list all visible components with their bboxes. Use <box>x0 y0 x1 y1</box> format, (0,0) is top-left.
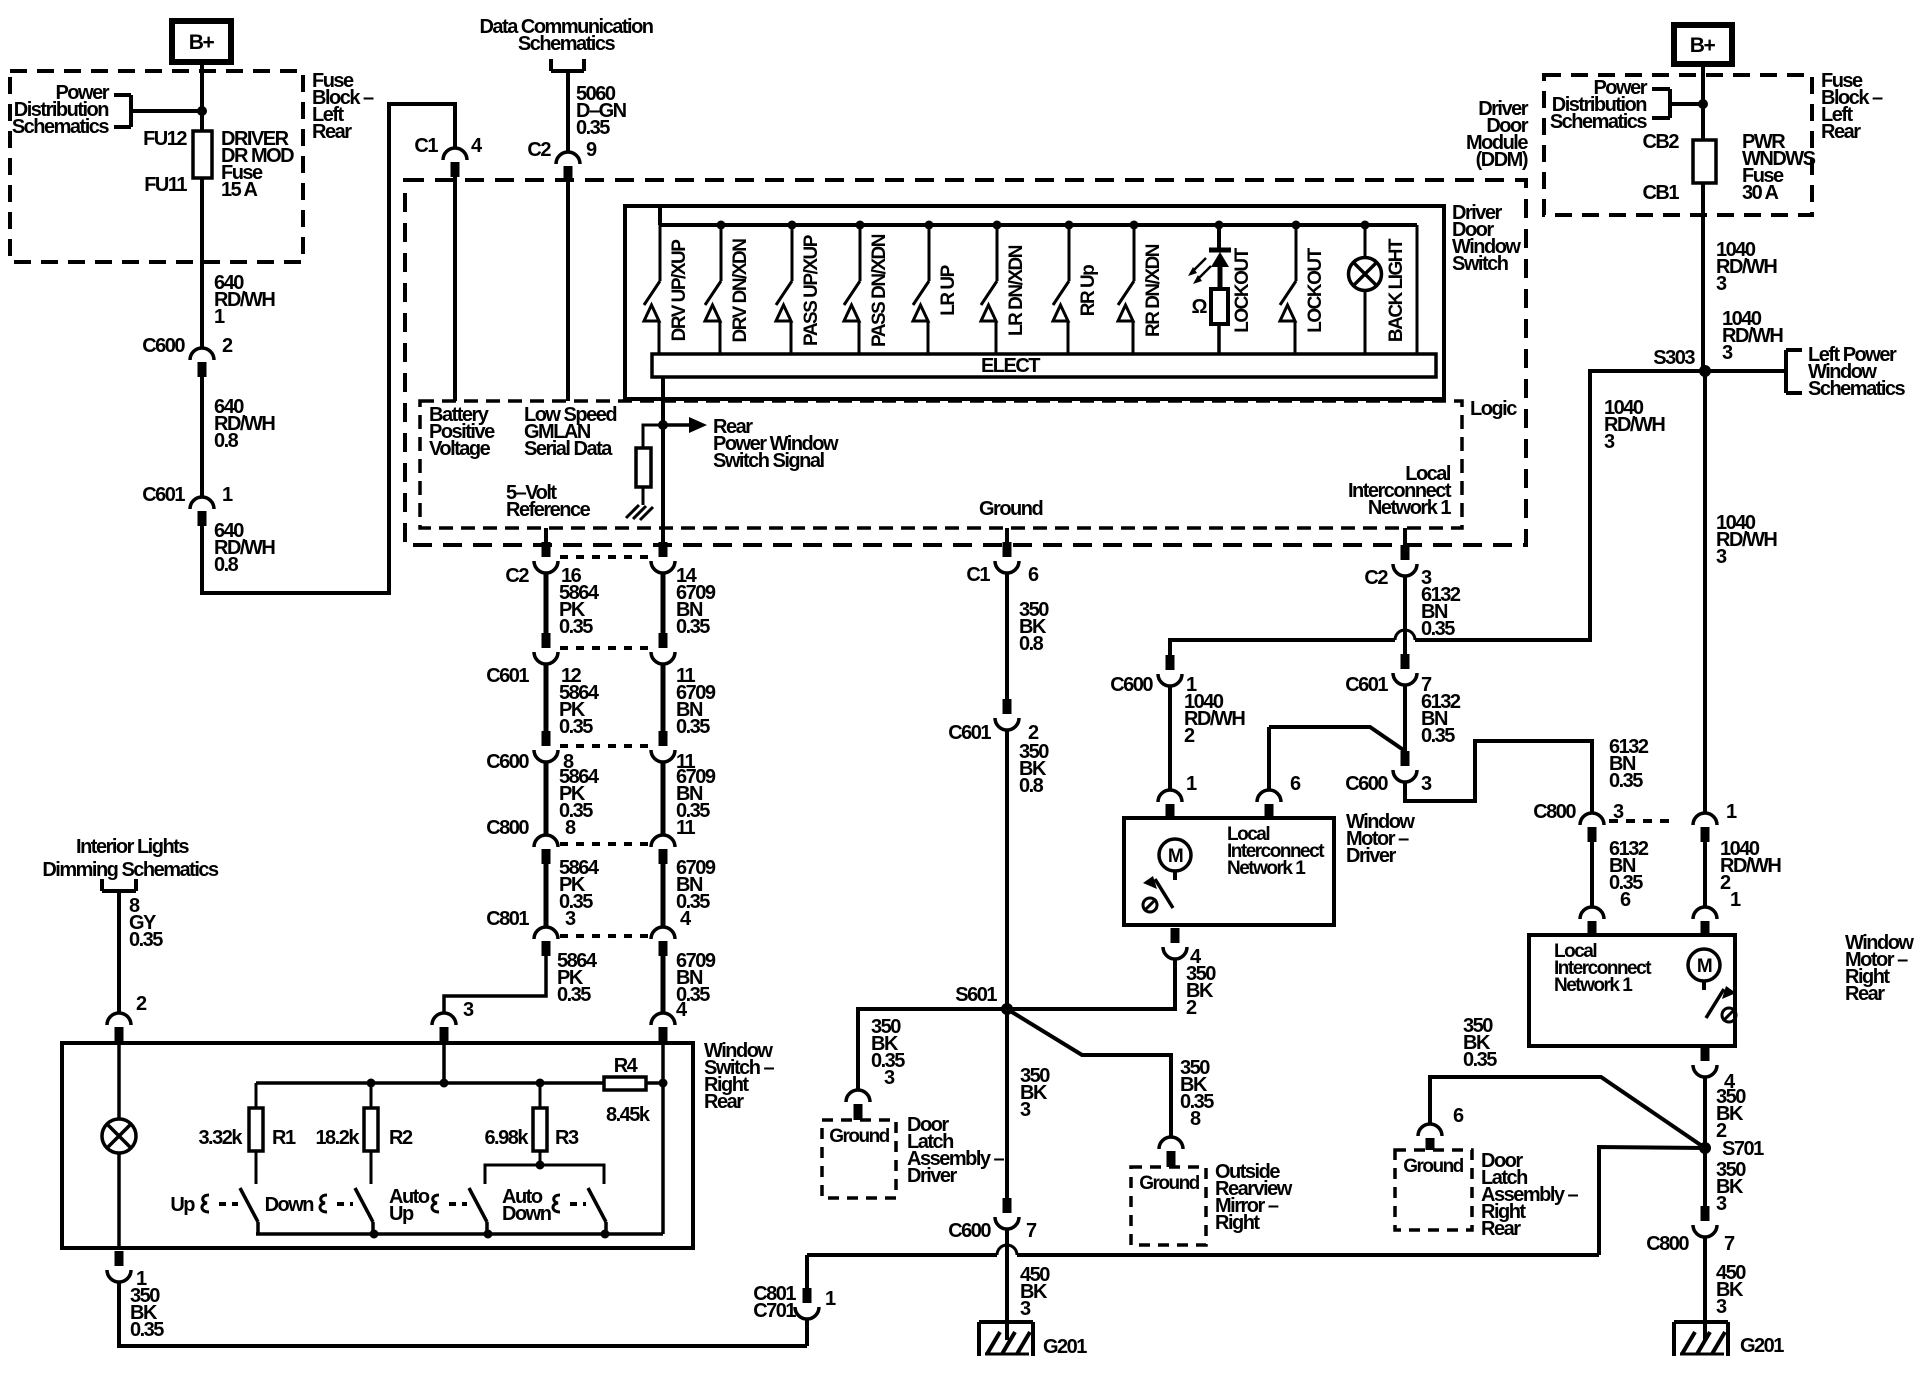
svg-text:11: 11 <box>676 817 696 839</box>
connector C601 pin 1 <box>190 497 214 509</box>
wire lamp to pin 1 <box>117 1153 121 1248</box>
svg-text:C600: C600 <box>486 751 529 773</box>
wire 6709 BN 0.35 (C601-C600) <box>661 664 666 731</box>
svg-text:C601: C601 <box>486 665 529 687</box>
wire C600 to C601 <box>200 377 204 497</box>
wire motor pin 4 to S701 <box>1703 1077 1707 1148</box>
svg-text:C601: C601 <box>142 484 185 506</box>
svg-text:3: 3 <box>463 999 474 1021</box>
svg-text:Driver: Driver <box>1346 845 1397 867</box>
svg-text:DRV UP/XUP: DRV UP/XUP <box>669 239 690 342</box>
svg-text:Logic: Logic <box>1470 398 1517 420</box>
svg-text:0.35: 0.35 <box>1463 1049 1497 1071</box>
svg-text:0.35: 0.35 <box>576 117 610 139</box>
svg-text:R4: R4 <box>614 1055 639 1077</box>
resistor R2 18.2k <box>370 1083 373 1108</box>
svg-text:0.35: 0.35 <box>557 984 591 1006</box>
wire C601 to connector C1 pin 4 (routing) <box>202 104 455 593</box>
wire bus left end down to C801/C701 <box>805 1255 809 1288</box>
motor M (driver) <box>1159 839 1191 871</box>
switch Up <box>240 1188 258 1222</box>
svg-text:9: 9 <box>586 139 597 161</box>
connector pin 1 into window motor driver <box>1158 790 1182 802</box>
svg-text:LOCKOUT: LOCKOUT <box>1305 247 1326 332</box>
wire C2-3 to C601-7 <box>1403 576 1407 654</box>
svg-text:Schematics: Schematics <box>12 116 110 138</box>
connector C2 pin 3 <box>1401 545 1410 560</box>
wire 6709 BN 0.35 (C800-C801) <box>661 863 666 927</box>
wire C1-4 to logic box (Battery Positive Voltage) <box>453 177 457 401</box>
switch LOCKOUT <box>1292 221 1301 230</box>
svg-text:15 A: 15 A <box>221 179 258 201</box>
driver door window switch box <box>625 206 1444 399</box>
svg-text:Switch: Switch <box>1452 253 1508 275</box>
ground G201 (right) <box>1674 1320 1728 1324</box>
svg-text:1: 1 <box>222 484 233 506</box>
splice S601 <box>1001 1003 1013 1015</box>
switch RR Up <box>1065 221 1074 230</box>
splice S303 <box>1699 365 1711 377</box>
svg-text:3: 3 <box>1604 431 1615 453</box>
switch LR UP <box>925 221 934 230</box>
wire S701 down to C800-7 <box>1703 1148 1707 1206</box>
connector pin 1 into window motor right rear <box>1693 907 1717 919</box>
wire window motor driver pin 6 branch <box>1269 727 1405 751</box>
connector pin 6 into window motor driver <box>1257 790 1281 802</box>
svg-text:0.35: 0.35 <box>1421 618 1455 640</box>
junction node <box>197 106 207 116</box>
switch bank supply bus <box>658 206 662 225</box>
wire C800-3 to right rear motor pin 6 <box>1590 842 1594 907</box>
power terminal B+ (right) <box>1674 25 1732 64</box>
connector C1 pin 6 <box>1003 542 1012 557</box>
svg-text:3: 3 <box>1716 273 1727 295</box>
LED emission arrows <box>1193 258 1206 271</box>
connector C601 pin 7 <box>1401 654 1410 669</box>
switch Auto Up <box>469 1188 487 1222</box>
switch internal bus <box>442 1043 446 1083</box>
connector C1 pin 4 into DDM <box>443 148 467 160</box>
svg-text:Rear: Rear <box>704 1091 744 1113</box>
svg-text:C801: C801 <box>486 908 529 930</box>
svg-text:CB2: CB2 <box>1642 131 1679 153</box>
wire B+ to fuse <box>200 62 204 131</box>
ground connector (outside rearview mirror) <box>1159 1137 1183 1149</box>
connector pin 6 into window motor right rear <box>1580 907 1604 919</box>
switch Auto Down <box>588 1188 606 1222</box>
connector C800 pin 1 <box>1693 813 1717 825</box>
wire S701 to door latch rr ground <box>1430 1077 1705 1148</box>
ground connector (door latch driver) <box>846 1090 870 1102</box>
driver door module (DDM) dashed box <box>405 180 1526 545</box>
svg-text:RR Up: RR Up <box>1078 265 1099 316</box>
svg-text:S303: S303 <box>1653 347 1695 369</box>
svg-text:M: M <box>1168 846 1183 867</box>
svg-text:Network 1: Network 1 <box>1227 858 1306 879</box>
svg-text:ELECT: ELECT <box>981 355 1040 377</box>
ground connector (door latch rr) <box>1418 1124 1442 1136</box>
svg-text:1: 1 <box>825 1288 836 1310</box>
svg-text:18.2k: 18.2k <box>315 1127 360 1149</box>
wire 5864 PK 0.35 to window switch pin 3 <box>444 954 546 1013</box>
wire bracket to node <box>131 109 202 113</box>
svg-text:Right: Right <box>1215 1212 1260 1234</box>
switch DRV UP/XUP <box>659 225 662 281</box>
svg-text:C601: C601 <box>1345 674 1388 696</box>
wire 6709 BN 0.35 to window switch pin 4 <box>661 954 666 1013</box>
wire S303 to C600-1 (long left branch) <box>1415 371 1705 640</box>
switch PASS UP/XUP <box>788 221 797 230</box>
ground G201 (center) <box>979 1320 1033 1324</box>
illumination lamp <box>102 1119 136 1153</box>
resistor R3 6.98k <box>539 1083 542 1108</box>
svg-text:Down: Down <box>265 1194 314 1216</box>
svg-text:0.35: 0.35 <box>559 616 593 638</box>
wire LIN1 out of logic <box>1403 528 1407 545</box>
svg-text:8: 8 <box>1190 1108 1201 1130</box>
svg-text:3: 3 <box>1716 1193 1727 1215</box>
connector C600 pin 1 <box>1166 655 1175 670</box>
svg-text:Ground: Ground <box>979 498 1042 520</box>
connector C600 pin 7 <box>1003 1198 1012 1213</box>
svg-text:Rear: Rear <box>1821 121 1861 143</box>
wire 5864 PK 0.35 (C2-C601) <box>544 573 549 633</box>
svg-text:3.32k: 3.32k <box>198 1127 243 1149</box>
wire lamp return to C801/C701 <box>119 1282 807 1346</box>
svg-text:S701: S701 <box>1722 1138 1764 1160</box>
back light lamp <box>1361 221 1370 230</box>
svg-text:6: 6 <box>1290 773 1301 795</box>
svg-text:Ground: Ground <box>829 1126 889 1147</box>
svg-text:PASS UP/XUP: PASS UP/XUP <box>801 234 822 346</box>
svg-text:BACK LIGHT: BACK LIGHT <box>1386 238 1407 342</box>
wire C601-7 to C600-3 <box>1403 685 1407 751</box>
svg-text:Ω: Ω <box>1191 296 1207 318</box>
svg-text:0.35: 0.35 <box>1609 770 1643 792</box>
svg-text:C601: C601 <box>948 722 991 744</box>
svg-text:8.45k: 8.45k <box>606 1104 651 1126</box>
ground bus C801/C701 to S701 <box>807 1253 997 1257</box>
window motor driver box <box>1124 818 1334 925</box>
svg-text:2: 2 <box>1186 997 1197 1019</box>
svg-text:3: 3 <box>1020 1099 1031 1121</box>
svg-text:Network 1: Network 1 <box>1554 975 1633 996</box>
svg-text:C2: C2 <box>527 139 551 161</box>
svg-text:Rear: Rear <box>1845 983 1885 1005</box>
svg-text:3: 3 <box>1421 773 1432 795</box>
svg-text:3: 3 <box>565 908 576 930</box>
switch PASS DN/XDN <box>856 221 865 230</box>
motor M (right rear) <box>1688 949 1720 981</box>
wire S601 down to C600-7 <box>1005 1009 1009 1198</box>
svg-text:Ground: Ground <box>1139 1173 1199 1194</box>
svg-text:8: 8 <box>565 817 576 839</box>
svg-text:B+: B+ <box>189 31 215 54</box>
wire C600-1 to motor pin 1 <box>1168 686 1172 790</box>
arrow Rear Power Window Switch Signal <box>663 423 689 427</box>
lockout resistor <box>1211 289 1228 324</box>
svg-text:Serial Data: Serial Data <box>524 438 613 460</box>
resistor R1 3.32k <box>255 1083 258 1108</box>
wire dimming feed <box>117 891 121 1013</box>
svg-text:0.8: 0.8 <box>214 554 239 576</box>
logic internal node <box>658 420 668 430</box>
connector C601 pin 2 <box>1003 699 1012 714</box>
svg-text:Schematics: Schematics <box>518 33 616 55</box>
connector pin 3 into window switch <box>432 1013 456 1025</box>
svg-text:7: 7 <box>1724 1233 1735 1255</box>
svg-text:Driver: Driver <box>907 1165 958 1187</box>
connector pin 1 below window switch <box>115 1251 124 1266</box>
svg-text:M: M <box>1697 956 1712 977</box>
wire 5-volt reference to column <box>544 528 548 542</box>
wire C600-7 to G201 <box>1005 1229 1009 1340</box>
svg-text:Voltage: Voltage <box>429 438 491 460</box>
switch Down <box>355 1188 373 1222</box>
connector pin 4 below driver motor <box>1171 928 1180 943</box>
svg-text:C2: C2 <box>1364 567 1388 589</box>
svg-text:(DDM): (DDM) <box>1476 149 1528 171</box>
svg-text:C800: C800 <box>1646 1233 1689 1255</box>
svg-text:3: 3 <box>1020 1298 1031 1320</box>
svg-text:C800: C800 <box>486 817 529 839</box>
svg-text:C600: C600 <box>142 335 185 357</box>
svg-text:C2: C2 <box>505 565 529 587</box>
wire C800-7 to G201 right <box>1703 1237 1707 1340</box>
svg-text:3: 3 <box>1716 546 1727 568</box>
svg-text:C1: C1 <box>414 135 438 157</box>
wire 5864 PK 0.35 (C800-C801) <box>544 863 549 927</box>
connector pair dash C800 <box>1609 819 1677 823</box>
connector C600 pin 2 <box>190 348 214 360</box>
wire C601-2 to S601 <box>1005 730 1009 1009</box>
wire 5864 PK 0.35 (C600-C800) <box>544 762 549 835</box>
svg-text:0.35: 0.35 <box>559 716 593 738</box>
wire ELECT to logic node <box>661 377 665 425</box>
termination resistor <box>636 448 651 487</box>
wire node to termination resistor <box>643 425 663 448</box>
svg-text:2: 2 <box>136 993 147 1015</box>
lockout indicator LED branch <box>1215 221 1224 230</box>
logic dashed box <box>420 401 1462 528</box>
off-page: Left Power Window Schematics <box>1705 369 1786 373</box>
svg-text:3: 3 <box>884 1067 895 1089</box>
svg-text:Rear: Rear <box>1481 1218 1521 1240</box>
wire S601 to outside rearview mirror ground <box>1007 1009 1171 1137</box>
svg-text:0.8: 0.8 <box>1019 775 1044 797</box>
svg-text:Up: Up <box>170 1194 195 1216</box>
connector C800 pin 7 <box>1701 1206 1710 1221</box>
svg-text:Down: Down <box>502 1203 551 1225</box>
svg-text:C800: C800 <box>1533 801 1576 823</box>
switch RR DN/XDN <box>1130 221 1139 230</box>
svg-text:Switch Signal: Switch Signal <box>713 450 824 472</box>
resistor R4 8.45k <box>604 1077 646 1090</box>
door latch assembly right rear dashed box <box>1395 1150 1472 1230</box>
door latch assembly driver dashed box <box>822 1120 896 1198</box>
svg-text:R2: R2 <box>389 1127 413 1149</box>
svg-text:Up: Up <box>389 1203 414 1225</box>
svg-text:B+: B+ <box>1690 34 1716 57</box>
connector C2 pin 9 into DDM <box>556 152 580 164</box>
power terminal B+ (left) <box>172 21 231 62</box>
svg-text:0.8: 0.8 <box>214 430 239 452</box>
svg-text:Rear: Rear <box>312 121 352 143</box>
connector C600 pin 3 <box>1401 751 1410 766</box>
connector C800 pin 3 <box>1580 813 1604 825</box>
svg-text:Schematics: Schematics <box>1550 111 1648 133</box>
ELECT bar <box>652 354 1436 377</box>
svg-text:2: 2 <box>222 335 233 357</box>
wire motor pin 4 to S601 <box>1007 959 1175 1009</box>
svg-text:Ground: Ground <box>1403 1156 1463 1177</box>
splice S701 <box>1699 1142 1711 1154</box>
svg-text:PASS DN/XDN: PASS DN/XDN <box>869 234 890 347</box>
svg-text:C701: C701 <box>753 1300 796 1322</box>
window motor right rear box <box>1529 935 1735 1046</box>
wire data bus to C2-9 <box>566 71 570 152</box>
svg-text:C1: C1 <box>966 564 990 586</box>
svg-text:R3: R3 <box>555 1127 579 1149</box>
svg-text:DRV DN/XDN: DRV DN/XDN <box>730 239 751 343</box>
connector pin 4 below rr motor <box>1701 1046 1710 1061</box>
svg-text:0.35: 0.35 <box>129 929 163 951</box>
svg-text:1: 1 <box>214 306 225 328</box>
wire 6709 BN 0.35 (C2-C601) <box>661 573 666 633</box>
chassis ground (logic) <box>626 505 639 518</box>
svg-text:RR DN/XDN: RR DN/XDN <box>1143 244 1164 337</box>
svg-text:FU11: FU11 <box>144 174 187 196</box>
wire B+ to breaker <box>1701 64 1705 140</box>
svg-text:Reference: Reference <box>506 499 591 521</box>
svg-text:6: 6 <box>1028 564 1039 586</box>
window switch right rear box <box>62 1043 693 1248</box>
svg-text:2: 2 <box>1184 725 1195 747</box>
svg-text:1: 1 <box>1726 801 1737 823</box>
outside rearview mirror dashed box <box>1131 1167 1206 1245</box>
svg-text:LR UP: LR UP <box>938 264 959 315</box>
fuse FU12/FU11 DRIVER DR MOD 15 A <box>193 131 212 178</box>
wire resistor to chassis ground <box>642 487 645 505</box>
svg-text:6: 6 <box>1453 1105 1464 1127</box>
svg-text:CB1: CB1 <box>1642 182 1679 204</box>
wire S303 down to C800-1 <box>1703 371 1707 813</box>
svg-text:C600: C600 <box>948 1220 991 1242</box>
connector pin 2 into window switch <box>107 1013 131 1025</box>
svg-text:6.98k: 6.98k <box>484 1127 529 1149</box>
switch LR DN/XDN <box>993 221 1002 230</box>
wire 6709 BN 0.35 (C600-C800) <box>661 762 666 835</box>
svg-text:0.35: 0.35 <box>130 1319 164 1341</box>
wire fuse to C600 <box>200 178 204 348</box>
svg-text:C600: C600 <box>1345 773 1388 795</box>
svg-text:Interior Lights: Interior Lights <box>76 836 189 858</box>
svg-text:3: 3 <box>1716 1296 1727 1318</box>
svg-text:7: 7 <box>1026 1220 1037 1242</box>
svg-text:1: 1 <box>1730 889 1741 911</box>
connector C601 pins 12/11 pair <box>542 633 551 648</box>
svg-text:0.35: 0.35 <box>676 616 710 638</box>
connector C600 pins 8/11 pair <box>542 731 551 746</box>
wire logic node to column <box>661 425 665 542</box>
svg-text:0.35: 0.35 <box>1421 725 1455 747</box>
wire C2-9 to logic box (GMLAN serial data) <box>566 181 570 401</box>
svg-text:Schematics: Schematics <box>1808 378 1906 400</box>
wire S601 to door latch driver ground <box>858 1009 1007 1090</box>
connector pin 4 into window switch <box>651 1013 675 1025</box>
svg-text:R1: R1 <box>272 1127 296 1149</box>
svg-text:6: 6 <box>1620 889 1631 911</box>
svg-text:0.35: 0.35 <box>676 716 710 738</box>
wire C1-6 to C601-2 <box>1005 573 1009 699</box>
svg-text:3: 3 <box>1722 342 1733 364</box>
svg-text:1: 1 <box>1186 773 1197 795</box>
svg-text:S601: S601 <box>955 984 997 1006</box>
fuse block left rear dashed box <box>10 71 303 262</box>
svg-text:Dimming Schematics: Dimming Schematics <box>42 859 219 881</box>
svg-text:Network 1: Network 1 <box>1368 497 1451 519</box>
circuit breaker CB2/CB1 PWR WNDWS 30 A <box>1693 140 1716 183</box>
wire breaker to S303 <box>1701 183 1705 371</box>
switch DRV DN/XDN <box>717 221 726 230</box>
svg-text:G201: G201 <box>1043 1336 1087 1358</box>
svg-text:LOCKOUT: LOCKOUT <box>1232 247 1253 332</box>
svg-text:LR DN/XDN: LR DN/XDN <box>1006 245 1027 336</box>
R3 feed bracket to auto switches <box>485 1165 604 1184</box>
svg-text:C600: C600 <box>1110 674 1153 696</box>
connector C801/C701 pin 1 <box>803 1288 812 1303</box>
wire 5864 PK 0.35 (C601-C600) <box>544 664 549 731</box>
wire C800-1 to right rear motor pin 1 <box>1703 842 1707 907</box>
wire bracket to node (right) <box>1670 102 1703 106</box>
svg-text:0.8: 0.8 <box>1019 633 1044 655</box>
wire to illumination lamp <box>117 1043 121 1120</box>
fuse block left rear dashed box (right) <box>1544 75 1812 215</box>
svg-text:G201: G201 <box>1740 1335 1784 1357</box>
wire C600-3 loop to C800-3 <box>1405 741 1592 813</box>
connector C2 pins 16/14 pair <box>542 542 551 557</box>
wire ground out of logic <box>1005 528 1009 542</box>
svg-text:30 A: 30 A <box>1742 182 1779 204</box>
switch common bus <box>256 1232 663 1236</box>
svg-text:FU12: FU12 <box>143 128 187 150</box>
